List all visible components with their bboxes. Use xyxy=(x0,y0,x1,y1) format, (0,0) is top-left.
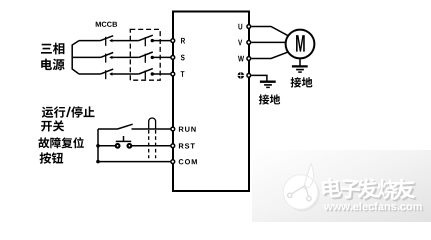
run/stop switch S1 xyxy=(118,124,133,129)
ground (motor) xyxy=(299,58,301,66)
wire phase S from source to MCCB xyxy=(73,56,101,58)
wire MCCB pole 3 to contactor xyxy=(111,73,139,75)
contactor MC dashed enclosure xyxy=(130,29,160,80)
label 按钮 xyxy=(40,152,51,163)
cable loop symbol xyxy=(149,118,156,129)
wire MCCB pole 1 to contactor xyxy=(111,40,139,42)
label MCCB xyxy=(96,22,117,27)
terminal U xyxy=(247,25,251,29)
watermark logo xyxy=(285,176,320,211)
wire W to motor xyxy=(251,52,288,59)
inverter block U1 xyxy=(173,12,249,192)
terminal S xyxy=(171,56,175,60)
wire common bus vertical xyxy=(97,129,99,162)
contactor mechanical linkage xyxy=(144,37,146,79)
contactor contact 1 xyxy=(139,35,153,40)
terminal T xyxy=(171,72,175,76)
wire switch to RUN terminal xyxy=(132,128,171,130)
reset push button SB1 xyxy=(116,144,120,148)
label 运行/停止 xyxy=(42,107,54,118)
wire U to motor xyxy=(251,27,288,36)
ground (PE) xyxy=(260,81,276,83)
wire phase T from source to MCCB xyxy=(79,73,101,75)
wire to run switch xyxy=(98,128,118,130)
contactor contact 3 xyxy=(139,69,153,74)
terminal COM xyxy=(171,160,175,164)
terminal W xyxy=(247,57,251,61)
MCCB pole 2 switch xyxy=(101,53,114,58)
watermark title 电子发烧友 xyxy=(323,179,343,200)
junction dot COM row xyxy=(96,160,100,164)
label 三相电源 xyxy=(41,44,52,54)
terminal R xyxy=(171,39,175,43)
MCCB pole 3 switch xyxy=(101,69,114,74)
contactor contact 2 xyxy=(139,52,153,57)
wire contactor 1 to terminal xyxy=(152,40,170,42)
wire MCCB pole 2 to contactor xyxy=(111,56,139,58)
wire V to motor xyxy=(251,41,285,43)
wire contactor 3 to terminal xyxy=(152,73,170,75)
label 接地 (motor) xyxy=(291,77,302,88)
wire PE terminal to ground xyxy=(251,75,267,81)
watermark url www.elecfans.com xyxy=(325,204,423,212)
wire COM xyxy=(98,161,171,163)
node three-phase source bracket xyxy=(72,41,79,74)
watermark gradient background xyxy=(252,150,431,222)
MCCB pole 1 switch xyxy=(101,36,114,41)
label 接地 (PE) xyxy=(259,94,269,104)
junction dot RST row xyxy=(96,144,100,148)
wire phase R from source to MCCB xyxy=(79,40,101,42)
wire to reset button xyxy=(98,145,116,147)
wire contactor 2 to terminal xyxy=(152,56,170,58)
terminal PE ground xyxy=(247,74,251,78)
terminal RUN xyxy=(171,127,175,131)
terminal V xyxy=(247,41,251,45)
label 开关 xyxy=(41,121,52,132)
label 故障复位 xyxy=(38,137,49,148)
terminal RST xyxy=(171,144,175,148)
motor M xyxy=(286,30,315,59)
wire button to RST terminal xyxy=(131,145,170,147)
